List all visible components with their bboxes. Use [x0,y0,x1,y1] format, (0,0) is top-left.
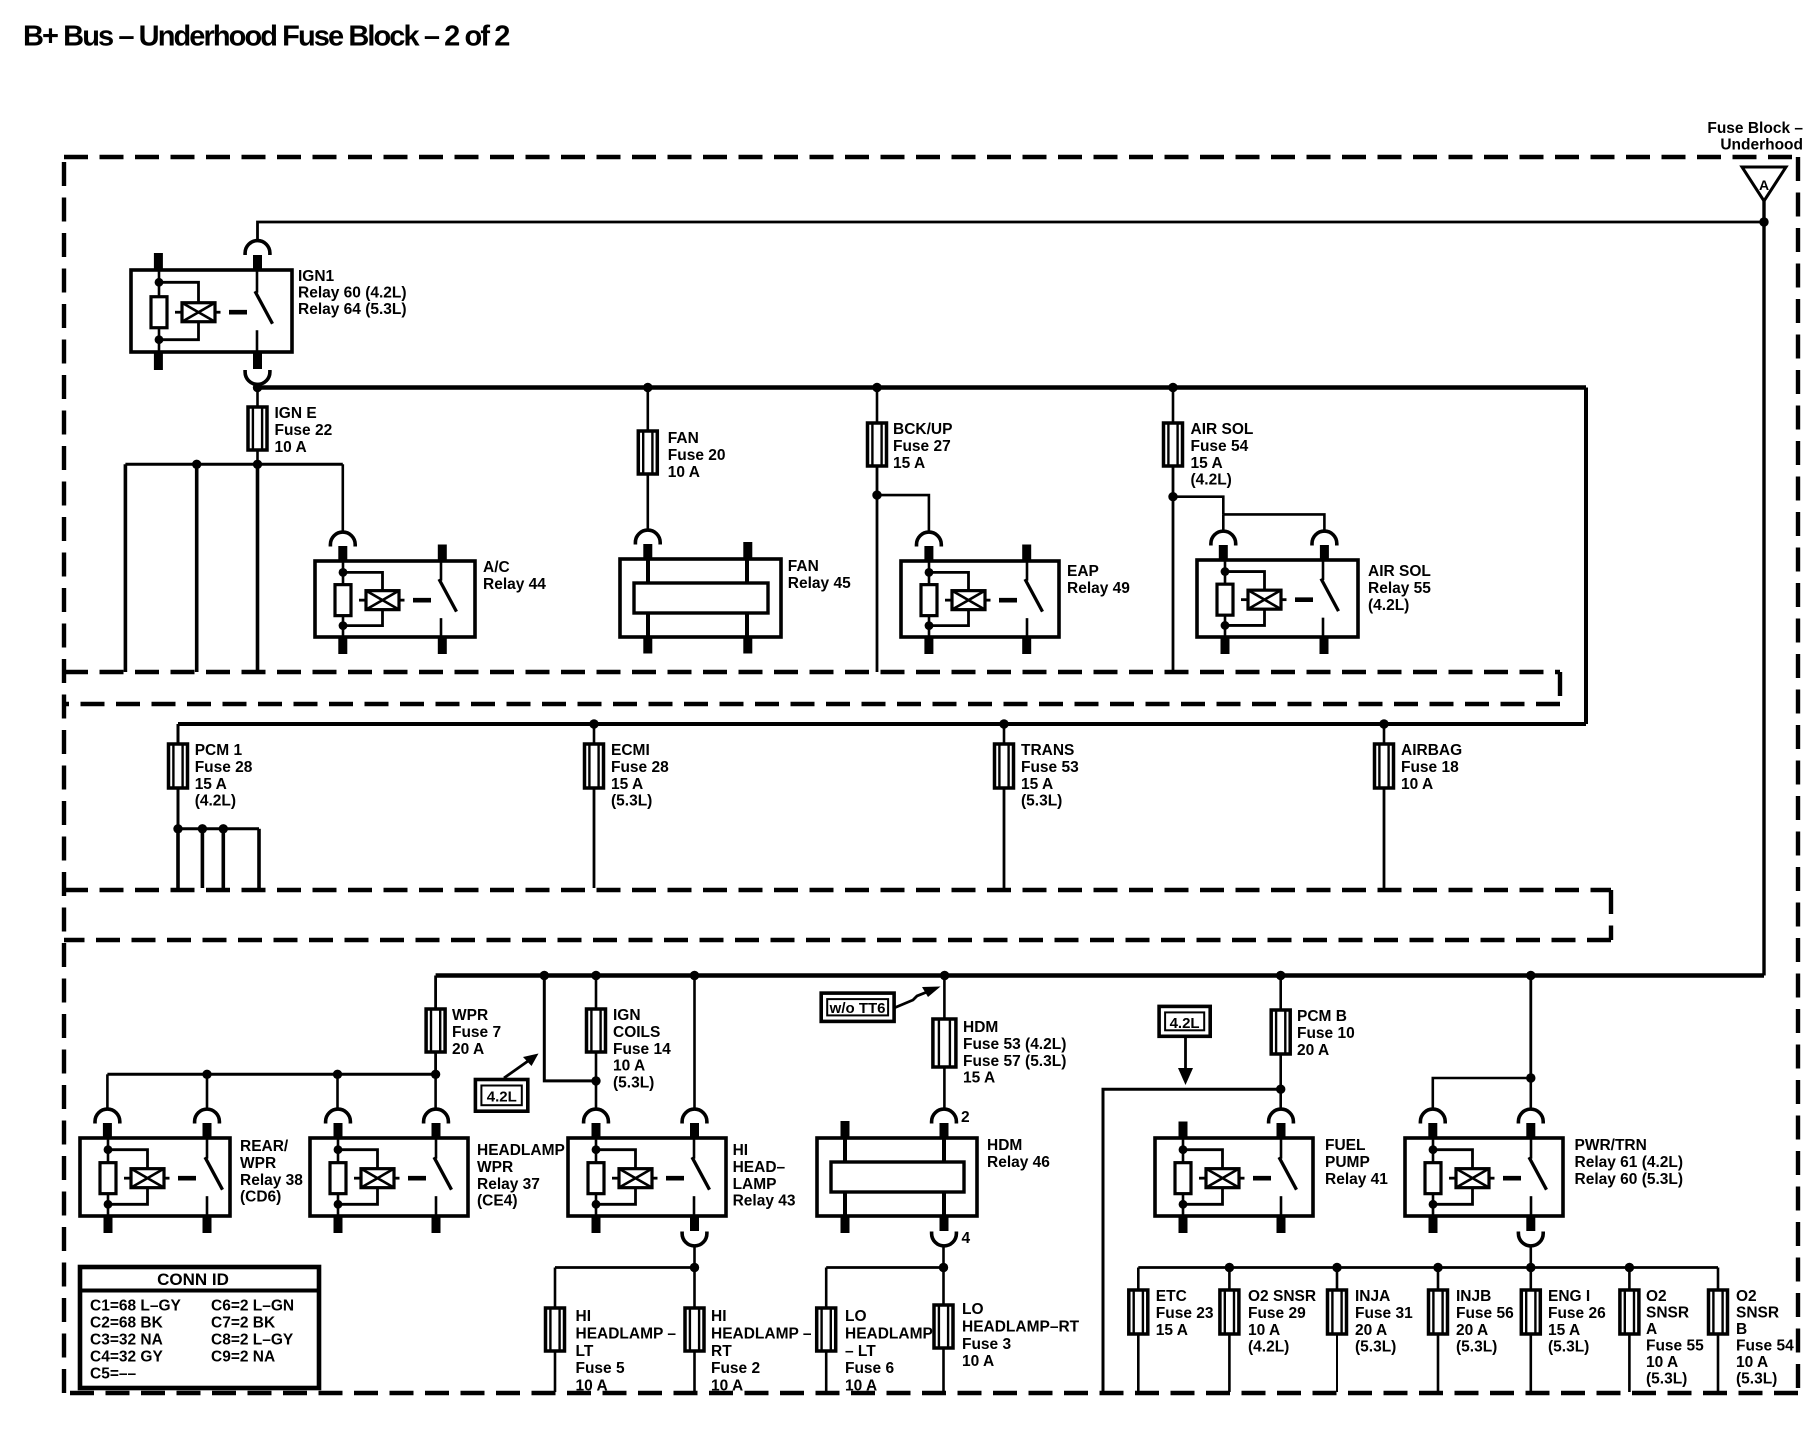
svg-text:WPR: WPR [477,1159,513,1176]
connector arc FAN relay left pin [635,530,660,560]
wire bus to BCK/UP fuse [876,388,879,424]
label HDM fuse [963,1019,1066,1086]
label INJB fuse [1456,1288,1514,1355]
fuse AIR SOL Fuse 54 15A (4.2L) [1164,423,1183,466]
svg-text:(5.3L): (5.3L) [1456,1339,1497,1356]
svg-text:Fuse 56: Fuse 56 [1456,1305,1514,1322]
svg-text:(4.2L): (4.2L) [1248,1339,1289,1356]
wire bar to HI HEADLAMP-RT fuse [693,1268,696,1309]
pin stub REAR/WPR switch bottom [203,1215,212,1233]
svg-text:LO: LO [845,1308,867,1325]
fuse INJA Fuse 31 20A (5.3L) [1328,1290,1347,1334]
wire HI-RT fuse exit [693,1351,696,1392]
relay REAR/WPR Relay 38 (CD6) [80,1138,230,1216]
svg-text:Fuse 18: Fuse 18 [1401,759,1459,776]
label ECMI fuse [611,742,669,809]
svg-text:TRANS: TRANS [1021,742,1074,759]
svg-text:INJB: INJB [1456,1288,1491,1305]
pin stub EAP switch top [1022,545,1031,563]
node PCM B fuse tap [1276,971,1285,980]
wire bus to AIR SOL fuse [1172,388,1175,424]
svg-text:(5.3L): (5.3L) [1646,1371,1687,1388]
node IGN1 output on bus [253,383,262,392]
wire bus to FAN fuse [646,388,649,432]
svg-text:LO: LO [962,1301,984,1318]
wire band1 B+ bus [258,385,1587,390]
label IGN E fuse [275,405,333,456]
svg-text:Fuse 3: Fuse 3 [962,1336,1011,1353]
svg-text:Relay 46: Relay 46 [987,1154,1050,1171]
svg-text:Fuse 14: Fuse 14 [613,1041,671,1058]
wire bar to O2 SNSR A fuse [1628,1268,1631,1291]
svg-text:(5.3L): (5.3L) [613,1074,654,1091]
svg-text:Underhood: Underhood [1720,137,1803,154]
fuse LO HEADLAMP - LT Fuse 6 10A [817,1308,836,1351]
svg-text:HEAD–: HEAD– [733,1159,786,1176]
arrow 4.2L to bypass wire [504,1054,539,1079]
pin stub IGN1 switch bottom [253,351,262,369]
svg-text:Relay 44: Relay 44 [483,576,546,593]
fuse O2 SNSR B Fuse 54 10A (5.3L) [1709,1290,1728,1334]
connector arc AIR SOL coil pin [1211,531,1236,561]
svg-text:EAP: EAP [1067,563,1099,580]
svg-text:Relay 43: Relay 43 [733,1193,796,1210]
fuse AIRBAG Fuse 18 10A [1375,744,1394,788]
wire AIRBAG exit lead [1383,788,1386,888]
svg-text:Fuse 55: Fuse 55 [1646,1338,1704,1355]
fuse LO HEADLAMP-RT Fuse 3 10A [934,1305,953,1348]
pin stub A/C switch top [438,545,447,563]
wire LO-RT fuse exit [942,1348,945,1392]
svg-text:CONN ID: CONN ID [157,1270,229,1289]
wire band2 bus [178,722,1586,726]
svg-text:HEADLAMP: HEADLAMP [845,1326,933,1343]
svg-text:(4.2L): (4.2L) [195,793,236,810]
wire bar to LO HEADLAMP-LT fuse [825,1268,828,1309]
label IGN COILS fuse [613,1007,671,1091]
wire bus corner to PCM1 fuse [177,724,180,744]
wire bus to HI HEADLAMP switch [693,976,696,1110]
svg-text:Fuse 10: Fuse 10 [1297,1025,1355,1042]
label LO HEADLAMP-LT fuse [845,1308,933,1394]
label Fuse Block - Underhood [1707,120,1803,154]
table CONN ID [80,1267,319,1388]
wire bar to REAR/WPR coil [106,1074,109,1109]
label HI HEADLAMP relay [733,1142,796,1209]
node HDM fuse tap [940,971,949,980]
fuse O2 SNSR Fuse 29 10A (4.2L) [1220,1290,1239,1334]
relay HEADLAMP WPR Relay 37 (CE4) [310,1138,468,1216]
wire bar to HEADLAMP WPR coil [336,1074,339,1109]
svg-text:C4=32 GY: C4=32 GY [90,1349,163,1366]
svg-text:IGN E: IGN E [275,405,317,422]
label O2 SNSR B fuse [1736,1288,1794,1388]
svg-text:AIR SOL: AIR SOL [1191,421,1254,438]
svg-text:w/o TT6: w/o TT6 [829,1000,886,1017]
svg-text:15 A: 15 A [1548,1322,1580,1339]
pin stub FAN relay right bottom [743,636,752,654]
svg-text:10 A: 10 A [962,1353,994,1370]
wire engine fuse bar [1138,1266,1718,1269]
svg-text:O2 SNSR: O2 SNSR [1248,1288,1316,1305]
pin stub EAP switch bottom [1022,636,1031,654]
label HEADLAMP WPR relay [477,1142,565,1209]
node PCM B output junction [1276,1085,1285,1094]
svg-text:O2: O2 [1736,1288,1757,1305]
svg-text:Fuse 54: Fuse 54 [1736,1338,1794,1355]
dashed divider band1/band2 [64,672,1560,704]
wire bar to ETC fuse [1137,1268,1140,1291]
node ENG I fuse tap [1526,1263,1535,1272]
wire IGN E to A/C relay coil [341,464,344,532]
relay A/C Relay 44 [315,561,475,637]
wire HI HEADLAMP output [693,1245,696,1267]
svg-text:(5.3L): (5.3L) [1548,1339,1589,1356]
svg-text:C3=32 NA: C3=32 NA [90,1332,163,1349]
pin stub EAP coil bottom [924,636,933,654]
svg-text:15 A: 15 A [1156,1322,1188,1339]
svg-text:Fuse Block –: Fuse Block – [1707,120,1803,137]
wire PCM1 exit lead 2 [201,829,205,888]
label O2 SNSR A fuse [1646,1288,1704,1388]
pin stub IGN1 coil top [154,253,163,271]
svg-text:WPR: WPR [240,1155,276,1172]
relay EAP Relay 49 [901,561,1059,637]
node BCK/UP fuse tap on bus [872,383,881,392]
svg-text:BCK/UP: BCK/UP [893,421,952,438]
wire O2 SNSR exit [1228,1334,1231,1392]
svg-text:(5.3L): (5.3L) [611,793,652,810]
wire ETC exit [1137,1334,1140,1392]
node junction on B+ at y222 [1759,217,1768,226]
svg-text:C8=2 L–GY: C8=2 L–GY [211,1332,294,1349]
label PCM 1 fuse [195,742,253,809]
svg-text:Fuse 27: Fuse 27 [893,438,951,455]
svg-text:Fuse 5: Fuse 5 [576,1360,625,1377]
relay AIR SOL Relay 55 (4.2L) [1197,560,1358,637]
pin stub HDM left bottom [841,1215,850,1233]
svg-text:HDM: HDM [963,1019,998,1036]
wire FAN fuse to FAN relay [646,474,649,531]
svg-text:15 A: 15 A [893,455,925,472]
label FUEL PUMP relay [1325,1137,1388,1188]
svg-text:4.2L: 4.2L [487,1089,517,1106]
connector arc HI HEADLAMP coil pin [584,1109,609,1139]
wire INJB exit [1437,1334,1440,1392]
label REAR/WPR relay [240,1138,303,1205]
label BCK/UP fuse [893,421,952,472]
connector arc IGN1 top pin [245,241,270,271]
node PCM1 bar x178 [173,824,182,833]
svg-text:C7=2 BK: C7=2 BK [211,1315,276,1332]
svg-text:AIR SOL: AIR SOL [1368,563,1431,580]
connector arc PWR/TRN switch pin [1518,1109,1543,1139]
label FAN relay [788,558,851,592]
svg-text:FAN: FAN [668,430,699,447]
wire PCM B branch to exit lead [1103,1089,1281,1392]
svg-text:Fuse 53: Fuse 53 [1021,759,1079,776]
label TRANS fuse [1021,742,1079,809]
svg-text:15 A: 15 A [611,776,643,793]
svg-text:20 A: 20 A [1355,1322,1387,1339]
svg-text:HDM: HDM [987,1137,1022,1154]
label AIR SOL relay [1368,563,1431,614]
wire TRANS exit lead [1003,788,1006,888]
wire WPR distribution bar [107,1073,435,1076]
connector arc HEADLAMP WPR switch pin [424,1109,449,1139]
connector arc IGN1 bottom pin [245,370,270,384]
node PWR/TRN branch junction [1526,1073,1535,1082]
connector arc EAP coil pin [917,532,942,562]
svg-text:C6=2 L–GN: C6=2 L–GN [211,1298,294,1315]
pin stub AIR SOL coil bottom [1221,636,1230,654]
svg-text:Fuse 26: Fuse 26 [1548,1305,1606,1322]
node on IGN E bar x196 [192,460,201,469]
svg-text:FAN: FAN [788,558,819,575]
svg-text:SNSR: SNSR [1646,1305,1689,1322]
pin stub FUEL PUMP coil top [1179,1122,1188,1140]
svg-text:Fuse 57 (5.3L): Fuse 57 (5.3L) [963,1053,1066,1070]
relay FUEL PUMP Relay 41 [1155,1138,1313,1216]
svg-text:Fuse 53 (4.2L): Fuse 53 (4.2L) [963,1036,1066,1053]
node HI HEADLAMP switch feed tap [690,971,699,980]
node AIRBAG fuse tap [1379,719,1388,728]
node PCM1 bar x223 [219,824,228,833]
wire PCM1 fuse output [177,788,180,829]
wire PCM1 exit lead 1 [176,829,180,888]
svg-text:Fuse 29: Fuse 29 [1248,1305,1306,1322]
svg-text:HEADLAMP–RT: HEADLAMP–RT [962,1319,1080,1336]
pin stub PWR/TRN switch bottom + connector arc [1518,1215,1543,1246]
svg-text:Fuse 6: Fuse 6 [845,1360,894,1377]
svg-text:20 A: 20 A [452,1041,484,1058]
svg-text:10 A: 10 A [668,464,700,481]
node BCK/UP branch [872,490,881,499]
pin stub PWR/TRN coil bottom [1429,1215,1438,1233]
wire IGN COILS fuse to HI HEADLAMP coil [595,1052,598,1110]
wire bus to PCM B fuse [1279,976,1282,1011]
wire PCM1 distribution bar [176,827,259,830]
connector arc A/C coil pin [330,532,355,562]
fuse HI HEADLAMP - RT Fuse 2 10A [685,1308,704,1351]
svg-text:Relay 61 (4.2L): Relay 61 (4.2L) [1575,1154,1684,1171]
svg-text:10 A: 10 A [711,1377,743,1394]
label A/C relay [483,559,546,593]
marker box 4.2L (headlamp wpr) [475,1080,527,1112]
pin stub FAN relay left bottom [643,636,652,654]
pin stub IGN1 coil bottom [154,351,163,370]
svg-text:Relay 45: Relay 45 [788,575,851,592]
connector arc HDM pin 2 [932,1109,957,1139]
svg-text:ECMI: ECMI [611,742,650,759]
connector triangle A (to other sheet) [1742,167,1786,201]
wire PCM1 exit lead 3 [222,829,226,888]
svg-text:10 A: 10 A [1646,1354,1678,1371]
connector arc PWR/TRN coil pin [1420,1109,1445,1139]
svg-text:PWR/TRN: PWR/TRN [1575,1137,1647,1154]
svg-text:10 A: 10 A [275,439,307,456]
svg-text:15 A: 15 A [1021,776,1053,793]
svg-text:Relay 64 (5.3L): Relay 64 (5.3L) [298,301,407,318]
svg-text:COILS: COILS [613,1024,660,1041]
connector arc REAR/WPR switch pin [195,1109,220,1139]
label AIR SOL fuse [1191,421,1254,488]
node FAN fuse tap on bus [643,383,652,392]
svg-text:4.2L: 4.2L [1170,1015,1200,1032]
wire IGN E fuse output [256,450,259,464]
node PCM1 bar x202 [198,824,207,833]
wire HDM fuse to HDM relay pin 2 [943,1067,946,1110]
svg-text:Fuse 28: Fuse 28 [195,759,253,776]
wire LO headlamp fuse bar [826,1266,943,1269]
pin number 4 label [962,1230,971,1247]
svg-text:(4.2L): (4.2L) [1191,472,1232,489]
label HI HEADLAMP-LT fuse [576,1308,677,1394]
node ECMI fuse tap [589,719,598,728]
svg-text:PCM B: PCM B [1297,1008,1347,1025]
label FAN fuse [668,430,726,481]
svg-text:15 A: 15 A [195,776,227,793]
pin stub HI HEADLAMP switch bottom + connector arc [682,1215,707,1246]
wire bar to O2 SNSR fuse [1228,1268,1231,1291]
node bypass junction below IGN COILS fuse [591,1076,600,1085]
svg-text:LT: LT [576,1343,594,1360]
wire bus to IGN E fuse [256,388,259,408]
wire ECMI exit lead [593,788,596,888]
label INJA fuse [1355,1288,1413,1355]
svg-text:(5.3L): (5.3L) [1021,793,1062,810]
svg-text:Fuse 7: Fuse 7 [452,1024,501,1041]
wire branch to PWR/TRN coil [1433,1078,1531,1110]
svg-text:B+ Bus – Underhood Fuse Block: B+ Bus – Underhood Fuse Block – 2 of 2 [23,21,509,53]
fuse HDM Fuse 53 (4.2L) Fuse 57 (5.3L) 15A [933,1019,956,1067]
wire PCM1 exit lead 4 [257,829,261,888]
node on IGN E bar x257 [253,460,262,469]
pin stub REAR/WPR coil bottom [104,1215,113,1233]
fuse BCK/UP Fuse 27 15A [868,423,887,466]
svg-text:C9=2 NA: C9=2 NA [211,1349,275,1366]
svg-text:Fuse 23: Fuse 23 [1156,1305,1214,1322]
fuse IGN E Fuse 22 10A [248,407,267,450]
svg-text:HI: HI [733,1142,749,1159]
wire bus to IGN COILS fuse [595,976,598,1010]
arrow 4.2L down to wire [1178,1036,1193,1085]
pin stub HDM pin 4 bottom + connector arc [932,1215,957,1246]
svg-text:Relay 37: Relay 37 [477,1176,540,1193]
svg-text:A: A [1646,1321,1657,1338]
wire bus to AIRBAG fuse [1383,724,1386,744]
relay FAN Relay 45 [620,559,781,637]
svg-text:Fuse 54: Fuse 54 [1191,438,1249,455]
svg-text:10 A: 10 A [576,1377,608,1394]
wire HDM output pin4 [942,1245,945,1267]
svg-text:O2: O2 [1646,1288,1667,1305]
wire HI-LT fuse exit [554,1351,557,1392]
svg-text:HEADLAMP –: HEADLAMP – [711,1326,812,1343]
node WPR bar junction [431,1070,440,1079]
node AIR SOL fuse tap on bus [1168,383,1177,392]
wire exit lead x125 [124,464,128,672]
node IGN COILS fuse tap [591,971,600,980]
svg-text:INJA: INJA [1355,1288,1390,1305]
svg-text:WPR: WPR [452,1007,488,1024]
wire HI headlamp fuse bar [555,1266,695,1269]
wire 4.2L bypass [544,976,596,1081]
svg-text:HI: HI [711,1308,727,1325]
node TRANS fuse tap [999,719,1008,728]
fuse FAN Fuse 20 10A [638,431,657,474]
label ENG I fuse [1548,1288,1606,1355]
svg-text:10 A: 10 A [613,1058,645,1075]
wire O2 SNSR B exit [1717,1334,1720,1392]
wire bus to PWR/TRN junction [1529,976,1532,1079]
svg-text:15 A: 15 A [963,1070,995,1087]
svg-text:4: 4 [962,1230,971,1247]
wire exit lead x257 [256,464,260,672]
fuse ETC Fuse 23 15A [1129,1290,1148,1334]
pin stub A/C coil bottom [338,636,347,654]
svg-text:10 A: 10 A [1248,1322,1280,1339]
svg-text:A: A [1759,177,1769,193]
svg-text:(5.3L): (5.3L) [1736,1371,1777,1388]
node INJB fuse tap [1433,1263,1442,1272]
wire bus corner to WPR fuse [434,976,437,1010]
svg-text:Relay 60 (4.2L): Relay 60 (4.2L) [298,285,407,302]
wire PCM B fuse output [1279,1054,1282,1089]
svg-text:Fuse 20: Fuse 20 [668,447,726,464]
svg-text:IGN: IGN [613,1007,641,1024]
connector arc FUEL PUMP switch pin [1269,1109,1294,1139]
wire bar to REAR/WPR switch [206,1074,209,1109]
wire bar to INJB fuse [1437,1268,1440,1291]
label HDM relay [987,1137,1050,1171]
svg-text:20 A: 20 A [1297,1042,1329,1059]
node HI headlamp bar junction [690,1263,699,1272]
svg-text:Fuse 31: Fuse 31 [1355,1305,1413,1322]
wire AIR SOL fuse output down to boundary [1172,466,1175,671]
svg-text:Relay 49: Relay 49 [1067,580,1130,597]
label AIRBAG fuse [1401,742,1462,793]
connector arc AIR SOL switch pin [1312,531,1337,561]
svg-text:HEADLAMP: HEADLAMP [477,1142,565,1159]
label LO HEADLAMP-RT fuse [962,1301,1080,1370]
wire WPR fuse output [434,1052,437,1074]
fuse PCM B Fuse 10 20A [1271,1010,1290,1054]
pin stub AIR SOL switch bottom [1320,636,1329,654]
svg-text:(4.2L): (4.2L) [1368,597,1409,614]
connector arc HI HEADLAMP switch pin [682,1109,707,1139]
svg-text:Relay 41: Relay 41 [1325,1171,1388,1188]
svg-text:ENG I: ENG I [1548,1288,1590,1305]
label HI HEADLAMP-RT fuse [711,1308,812,1394]
pin stub FUEL PUMP switch bottom [1277,1215,1286,1233]
svg-text:Fuse 22: Fuse 22 [275,422,333,439]
marker box 4.2L (pcm b) [1159,1006,1210,1036]
wire IGN E distribution bar [125,463,342,466]
fuse ECMI Fuse 28 15A (5.3L) [585,744,604,788]
svg-text:A/C: A/C [483,559,510,576]
node O2 SNSR A fuse tap [1625,1263,1634,1272]
wire bar to ENG I fuse [1530,1268,1533,1291]
pin stub FUEL PUMP coil bottom [1179,1215,1188,1233]
pin stub HI HEADLAMP coil bottom [592,1215,601,1233]
relay HI HEADLAMP Relay 43 [568,1138,726,1216]
wire bar to HEADLAMP WPR switch [434,1074,437,1109]
svg-text:Fuse 28: Fuse 28 [611,759,669,776]
svg-text:Fuse 2: Fuse 2 [711,1360,760,1377]
wire bar to INJA fuse [1336,1268,1339,1291]
svg-text:C1=68 L–GY: C1=68 L–GY [90,1298,182,1315]
